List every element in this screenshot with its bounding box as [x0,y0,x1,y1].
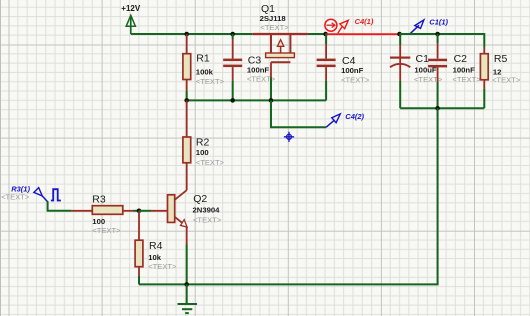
svg-text:R4: R4 [149,240,163,252]
capacitor C3 100nF [223,34,276,100]
svg-text:2N3904: 2N3904 [193,205,221,214]
resistor R1 100k [183,34,225,100]
svg-text:100: 100 [196,148,209,157]
svg-text:2SJ118: 2SJ118 [260,14,287,23]
svg-text:R2: R2 [196,136,210,148]
svg-text:C1: C1 [416,53,430,65]
svg-text:R3: R3 [92,194,106,206]
transistor Q2 2N3904 (NPN) [139,176,222,284]
svg-text:<TEXT>: <TEXT> [260,23,289,32]
resistor R4 10k [135,211,177,285]
transistor Q1 2SJ118 (P-MOSFET) [252,3,308,101]
svg-text:<TEXT>: <TEXT> [492,75,521,84]
svg-text:<TEXT>: <TEXT> [196,77,225,86]
svg-text:C1(1): C1(1) [429,17,448,26]
ground [178,284,198,313]
svg-text:C4(2): C4(2) [345,112,364,121]
svg-text:<TEXT>: <TEXT> [196,158,225,167]
capacitor C2 100nF [428,34,481,108]
svg-text:<TEXT>: <TEXT> [341,75,370,84]
svg-text:100nF: 100nF [453,66,476,75]
svg-text:<TEXT>: <TEXT> [148,262,177,271]
origin marker [284,132,294,142]
power terminal +12V [121,4,141,34]
svg-text:100nF: 100nF [341,66,364,75]
wire: Q1 drain bar to C4 node [308,33,326,35]
svg-text:R1: R1 [196,53,210,65]
svg-text:<TEXT>: <TEXT> [452,75,481,84]
svg-text:C4(1): C4(1) [355,17,374,26]
wire: input corner to R3 [48,201,72,211]
junction dot: R3 / R4 / Q2 base [137,209,142,214]
voltage probe R3(1) [1,185,48,202]
voltage probe C4(2) [326,112,364,127]
resistor R5 12 [480,47,520,108]
junction dot: rail / C4 top [323,32,328,37]
svg-text:100: 100 [92,217,105,226]
current probe C4(1) [325,17,374,33]
svg-text:<TEXT>: <TEXT> [1,192,30,201]
svg-text:<TEXT>: <TEXT> [92,226,121,235]
svg-text:+12V: +12V [121,4,141,13]
junction dot: red wire / C1 top [397,32,402,37]
capacitor C4 100nF [317,34,370,100]
svg-text:Q1: Q1 [261,3,275,15]
resistor R2 100 [183,100,225,176]
svg-text:R5: R5 [494,53,508,65]
junction dot: node row / Q1 gate [269,98,274,103]
pulse generator symbol [51,189,61,200]
wire: output bottom rail (C1-C2-R5) [400,107,484,109]
svg-text:100nF: 100nF [247,65,270,74]
wire: node row (R1/R2 - C3 - Q1 gate - C4 bottom) [187,99,326,101]
svg-text:Q2: Q2 [193,193,207,205]
wire: gate node stub to probe C4(2) [271,100,326,127]
wire (selected, red): C4 node to C1 node [326,33,400,35]
wire: C1 node to C2 top and R5 top [400,34,485,47]
capacitor C1 100uF (electrolytic) [390,34,443,108]
svg-text:100k: 100k [196,67,214,76]
junction dot: bottom rail / C2 bottom / riser [435,106,440,111]
wire: +12V rail to Q1 source bar [131,33,253,35]
junction dot: rail / C3 top [230,32,235,37]
voltage probe C1(1) [410,17,449,34]
wire: ground rail and riser to output rail [139,108,438,284]
svg-text:<TEXT>: <TEXT> [193,216,222,225]
resistor R3 100 [71,194,139,235]
junction dot: node row / R1-R2 [184,98,189,103]
junction dot: rail / C2 top [435,32,440,37]
junction dot: ground rail / Q2 emitter / ground [184,282,189,287]
junction dot: rail / R1 top [184,32,189,37]
svg-text:10k: 10k [148,253,162,262]
junction dot: node row / C3 bottom [230,98,235,103]
svg-text:C2: C2 [454,53,468,65]
